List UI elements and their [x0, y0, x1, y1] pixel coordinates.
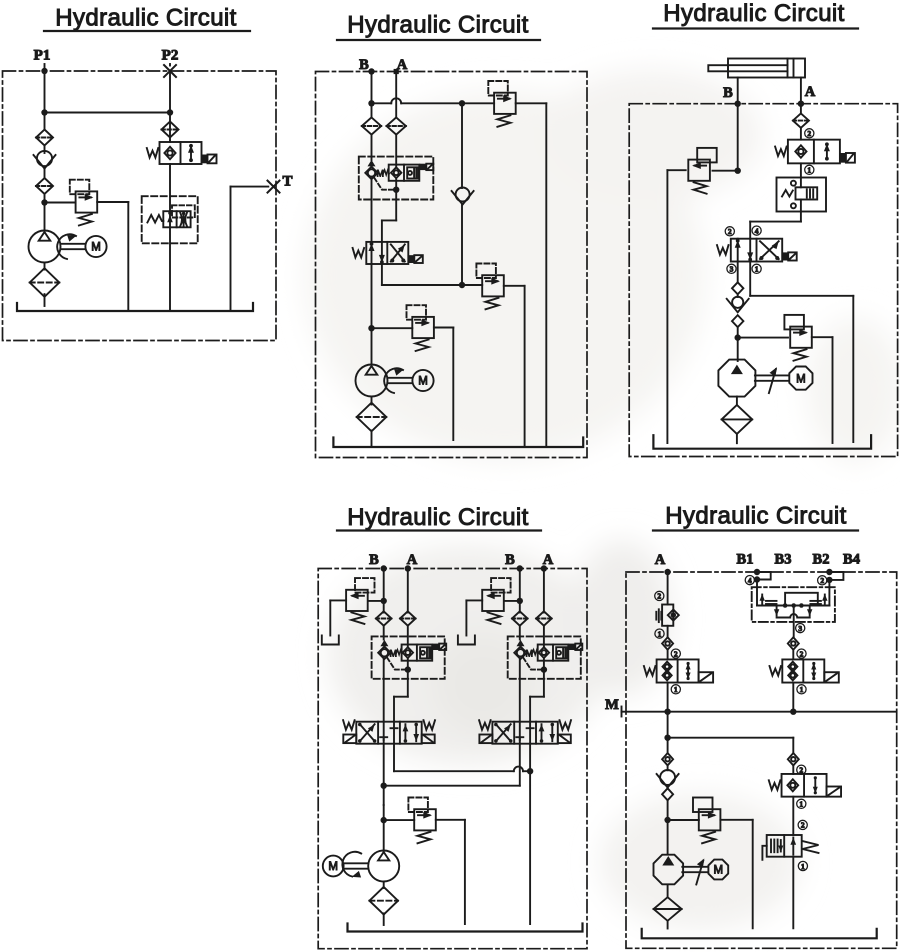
relief valve RV3: [476, 264, 503, 310]
wire DV2 T out: [750, 262, 853, 443]
svg-text:Hydraulic Circuit: Hydraulic Circuit: [55, 5, 237, 32]
port A node: [541, 565, 547, 571]
wire A to M line: [664, 683, 670, 740]
port A node: [405, 565, 411, 571]
flow regulator FR1: [777, 178, 827, 212]
label c3 valve: [727, 264, 736, 273]
wire RV6 drain: [812, 337, 833, 443]
check diamond D4: [788, 637, 799, 649]
relief valve RV1: [70, 180, 97, 226]
label c2 f: [798, 820, 807, 829]
wire to RV4: [372, 327, 413, 329]
filter F5: [387, 117, 406, 134]
svg-text:A: A: [655, 552, 666, 568]
tank line diagram 2: [333, 438, 583, 448]
wire pump suction 2: [371, 397, 373, 405]
check diamond D2: [732, 315, 743, 327]
label c4: [745, 576, 754, 585]
wire: [800, 163, 802, 177]
wire RV4 drain: [434, 328, 453, 441]
wire: [667, 738, 669, 771]
port label B3: [723, 85, 733, 101]
pump P4 with motor left: [323, 851, 399, 882]
svg-text:2: 2: [657, 592, 661, 601]
diagram 2 title: [337, 12, 540, 41]
port label A2: [543, 552, 554, 568]
label c1: [805, 165, 814, 174]
svg-text:P1: P1: [34, 48, 51, 64]
svg-text:P2: P2: [162, 48, 179, 64]
wire pump suction 3: [736, 397, 738, 406]
port B node: [368, 68, 374, 74]
port B1 node: [754, 569, 760, 575]
tank symbol: [458, 636, 475, 645]
wire filter to tank: [44, 294, 46, 306]
tank symbol: [322, 636, 339, 645]
port label B1: [369, 552, 379, 568]
cylinder CYL1: [708, 59, 805, 78]
wire B down: [381, 569, 387, 613]
wire CB1 to tank: [792, 857, 794, 929]
check valve V1: [34, 151, 56, 169]
relief valve: [346, 578, 374, 624]
wire A to box: [407, 626, 409, 647]
check diamond D6: [662, 788, 673, 800]
svg-text:3: 3: [730, 265, 734, 274]
label c2 e: [797, 765, 806, 774]
wire A down: [543, 569, 545, 613]
wire filter to tank 2: [371, 431, 373, 448]
relief valve RV5: [688, 148, 716, 194]
svg-text:A: A: [805, 84, 816, 100]
svg-text:4: 4: [748, 576, 752, 585]
directional valve 4/3: [479, 720, 571, 744]
solenoid valve SV1: [147, 142, 217, 164]
wire: [792, 765, 794, 774]
wire: [667, 626, 669, 638]
label c1 f: [798, 861, 807, 870]
label c1 valve: [752, 264, 761, 273]
wire to RV6: [738, 337, 788, 339]
wire B to relief: [504, 600, 520, 602]
wire A to box: [395, 135, 397, 167]
filter F6: [793, 113, 809, 127]
pump P3 with motor: [718, 360, 812, 397]
label c2 d: [797, 649, 806, 658]
check diamond D5: [662, 753, 673, 765]
filter F3 on P2: [162, 122, 179, 138]
port A node: [394, 69, 399, 74]
svg-text:1: 1: [674, 685, 678, 694]
solenoid valve SV3: [644, 659, 713, 682]
port T branch: [231, 181, 280, 311]
svg-text:B3: B3: [775, 552, 792, 568]
port M: [605, 697, 621, 717]
wire relief drain: [330, 600, 346, 635]
diagram 1 title: [44, 5, 250, 32]
solenoid valve SV2: [775, 140, 855, 164]
wire A down: [395, 72, 397, 118]
wire P2 down: [169, 71, 171, 142]
svg-text:1: 1: [755, 265, 759, 274]
label c2 c: [818, 576, 827, 585]
wire B down to pump: [368, 264, 374, 365]
svg-text:B2: B2: [813, 552, 830, 568]
wire B3 to M line: [790, 683, 796, 715]
wire B down: [517, 569, 523, 613]
relief valve RV2: [488, 81, 515, 127]
svg-text:1: 1: [799, 800, 803, 809]
svg-text:2: 2: [807, 129, 811, 138]
diagram 5 enclosure border: [626, 572, 897, 948]
port P2 node: [164, 64, 176, 77]
wire: [44, 169, 46, 179]
wire RV5 drain: [667, 170, 685, 443]
solenoid valve SV5: [769, 774, 841, 797]
diagram 5 title: [653, 503, 858, 531]
svg-text:1: 1: [801, 862, 805, 871]
wire P1 down: [44, 71, 46, 129]
port B node: [381, 565, 387, 571]
flow control FC1 dashed box: [142, 196, 198, 243]
label c2: [805, 129, 814, 138]
wire B box to valve: [519, 659, 521, 722]
check valve V2: [452, 188, 474, 205]
wire pump suction: [44, 263, 46, 270]
wire: [800, 128, 802, 140]
label c2 a: [655, 591, 664, 600]
svg-text:M: M: [605, 697, 619, 713]
port label P1: [34, 48, 51, 64]
wire A jog to valve: [394, 658, 408, 721]
pump P5 with motor: [654, 855, 729, 885]
relief valve RV8: [693, 798, 720, 844]
wire B below valve: [737, 262, 739, 283]
wire RV8 drain: [720, 820, 752, 929]
wire: [664, 800, 670, 854]
wire: [667, 650, 669, 659]
port B3 link: [754, 572, 771, 583]
check valve V2 line: [459, 103, 465, 288]
wire cyl A: [798, 78, 804, 114]
svg-text:3: 3: [798, 624, 802, 633]
filter F1: [36, 130, 53, 146]
check valve V3: [727, 297, 749, 313]
svg-text:B4: B4: [843, 552, 860, 568]
wire to RV8: [668, 819, 699, 821]
port label A: [397, 57, 408, 73]
check diamond D1: [732, 282, 743, 294]
wire filter to tank 3: [736, 434, 738, 443]
wire B box to valve: [371, 179, 373, 242]
pilot check box dashed: [359, 157, 434, 200]
tank line diagram 3: [653, 435, 871, 449]
svg-text:2: 2: [801, 821, 805, 830]
tank line diagram 4: [348, 924, 583, 932]
wire relief drain: [97, 202, 128, 311]
check valve V4: [657, 770, 679, 788]
pilot check box dashed: [372, 636, 445, 678]
pump P2 with motor: [356, 365, 434, 397]
wire T left valve: [394, 744, 533, 775]
pilot check box dashed: [508, 636, 581, 678]
svg-text:M: M: [714, 865, 724, 877]
wire B to box: [519, 626, 521, 640]
port label A3: [805, 84, 816, 100]
wire to relief: [45, 202, 76, 204]
port A node: [664, 569, 670, 575]
port label A5: [655, 552, 666, 568]
wire A lower junction: [664, 735, 793, 741]
wire P rail: [381, 744, 520, 805]
svg-text:M: M: [796, 373, 806, 385]
filter FA: [400, 611, 416, 625]
svg-text:2: 2: [674, 649, 678, 658]
diagram 3 title: [653, 0, 858, 29]
port B2 node: [826, 569, 832, 575]
wire: [792, 650, 794, 659]
label c3: [796, 624, 805, 633]
check diamond D3: [662, 637, 673, 649]
solenoid valve SV4: [770, 659, 839, 682]
pump P1 with motor: [29, 231, 107, 263]
label c2 valve: [725, 227, 734, 236]
diagram 1 enclosure border: [3, 71, 277, 341]
wire to pump junction: [735, 327, 741, 361]
port label B1: [737, 552, 754, 568]
wire P down: [381, 805, 387, 851]
tank line diagram 1: [17, 303, 253, 311]
svg-text:B: B: [359, 57, 369, 73]
port label B4: [843, 552, 860, 568]
diagram 2 enclosure border: [316, 72, 588, 458]
wire A down: [667, 572, 669, 605]
svg-text:1: 1: [807, 166, 811, 175]
wire B to box: [371, 135, 373, 160]
svg-text:M: M: [328, 861, 338, 873]
diagram 4 title: [337, 504, 541, 531]
cartridge filter CF1: [656, 605, 679, 626]
svg-text:B: B: [369, 552, 379, 568]
suction filter SF4: [369, 887, 398, 915]
wire RV3 out: [504, 286, 525, 447]
wire P2 drain: [169, 164, 171, 311]
label c4 valve: [752, 226, 761, 235]
svg-text:4: 4: [755, 226, 759, 235]
wire FR1 to valve: [750, 212, 801, 239]
flow divider FD1: [752, 580, 835, 638]
port B node: [517, 565, 523, 571]
port P1 node: [41, 64, 47, 74]
diagram 3 enclosure border: [629, 104, 897, 457]
svg-text:1: 1: [658, 629, 662, 638]
suction filter SF1: [30, 268, 60, 297]
svg-text:M: M: [418, 376, 428, 388]
directional valve 4/3: [343, 720, 435, 744]
directional valve DV2: [717, 239, 797, 262]
label c1 d: [797, 685, 806, 694]
wire B down: [368, 72, 374, 118]
check diamond D7: [788, 753, 799, 765]
port label T: [282, 174, 292, 190]
wire B junction to relief: [713, 168, 741, 174]
wire: [792, 797, 794, 835]
svg-text:2: 2: [800, 649, 804, 658]
wire A to box: [543, 626, 545, 647]
filter F2: [36, 178, 53, 194]
label c1 b: [671, 685, 680, 694]
wire top manifold: [372, 98, 495, 106]
filter FB: [512, 611, 528, 625]
label c1 e: [797, 799, 806, 808]
svg-text:B: B: [505, 552, 515, 568]
wire relief out: [516, 103, 547, 447]
pilot check assembly: [514, 640, 582, 673]
port label B2: [505, 552, 515, 568]
filter F4: [362, 117, 381, 134]
filter FA: [536, 611, 552, 625]
svg-text:Hydraulic Circuit: Hydraulic Circuit: [347, 12, 529, 39]
wire T right valve to tank: [529, 744, 531, 924]
port B4 link: [826, 572, 843, 583]
port label A1: [407, 552, 418, 568]
wire RV7 drain: [436, 820, 465, 924]
counterbalance valve CB1: [762, 835, 818, 860]
wire cyl B: [735, 78, 741, 172]
wire A jog to valve: [530, 658, 544, 721]
wire B to box: [383, 626, 385, 640]
svg-text:1: 1: [800, 685, 804, 694]
M line: [622, 711, 897, 713]
wire relief drain: [466, 600, 482, 635]
relief valve: [482, 578, 510, 624]
svg-text:T: T: [282, 174, 292, 190]
wire valve A to relief row: [382, 264, 482, 285]
wire: [41, 194, 47, 231]
port label B2: [813, 552, 830, 568]
wire: [737, 294, 739, 297]
wire A down: [407, 569, 409, 613]
suction filter SF3: [722, 405, 753, 434]
suction filter SF2: [357, 403, 387, 432]
wire filter to tank 5: [667, 921, 669, 929]
svg-text:M: M: [91, 242, 101, 254]
svg-text:B: B: [723, 85, 733, 101]
wire pump suction 5: [667, 885, 669, 898]
label c2 b: [671, 649, 680, 658]
relief valve RV4: [407, 305, 434, 351]
wire: [44, 146, 46, 153]
svg-text:2: 2: [728, 227, 732, 236]
pilot check assembly: [378, 640, 446, 673]
svg-text:B1: B1: [737, 552, 754, 568]
svg-text:Hydraulic Circuit: Hydraulic Circuit: [347, 504, 529, 531]
pilot check assembly PC1: [365, 160, 433, 193]
port label P2: [162, 48, 179, 64]
wire filter to tank 4: [383, 913, 385, 925]
wire: [667, 787, 669, 790]
label c1 a: [655, 629, 664, 638]
wire P1-P2 crossover: [41, 109, 173, 115]
relief valve RV6: [784, 315, 811, 361]
port label B: [359, 57, 369, 73]
tank line diagram 5: [642, 929, 877, 939]
svg-text:Hydraulic Circuit: Hydraulic Circuit: [665, 503, 847, 530]
filter FB: [376, 611, 392, 625]
relief valve RV7: [408, 798, 435, 844]
svg-text:Hydraulic Circuit: Hydraulic Circuit: [663, 0, 845, 27]
directional valve DV1: [353, 242, 423, 264]
wire to RV7: [384, 819, 415, 821]
diagram 4 enclosure border: [318, 569, 587, 949]
wire pump suction 4: [383, 882, 385, 889]
wire A box to valve: [382, 178, 396, 242]
wire B to relief: [368, 600, 384, 602]
wire B box to valve: [383, 659, 385, 722]
port label B3: [775, 552, 792, 568]
svg-text:2: 2: [820, 576, 824, 585]
suction filter SF5: [654, 897, 682, 921]
wire right branch down: [792, 738, 794, 753]
